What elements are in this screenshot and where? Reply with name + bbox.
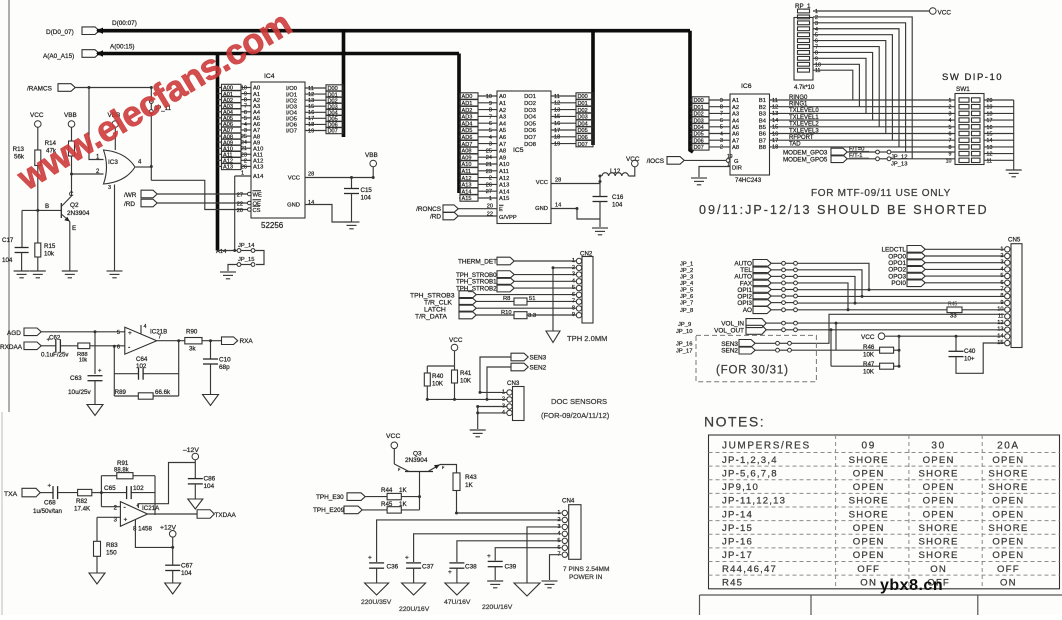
svg-text:AO: AO (743, 307, 752, 314)
svg-text:JP_8: JP_8 (680, 308, 693, 314)
pin A4 IC5 (499, 121, 507, 127)
svg-text:A8: A8 (732, 145, 739, 151)
svg-text:11: 11 (998, 313, 1004, 319)
svg-text:2N3904: 2N3904 (67, 210, 90, 217)
svg-text:JP_7: JP_7 (680, 301, 693, 307)
svg-text:5: 5 (489, 128, 492, 134)
wire CN3 pin2 row (427, 398, 507, 400)
net AO (743, 306, 771, 314)
svg-text:R45: R45 (722, 577, 743, 588)
node D00 bus rip (326, 85, 344, 92)
svg-text:10K: 10K (460, 378, 472, 385)
svg-text:SEN3: SEN3 (530, 355, 547, 362)
node junction (476, 411, 479, 414)
svg-text:JP-11,12,13: JP-11,12,13 (722, 496, 786, 507)
node junction (835, 322, 838, 325)
power VCC CN3 (449, 337, 463, 351)
ground C39 (487, 581, 503, 588)
svg-text:VCC: VCC (449, 337, 463, 344)
pin DO4 (524, 114, 576, 120)
svg-text:OPEN: OPEN (853, 468, 885, 479)
svg-text:+: + (98, 369, 102, 375)
net JP_10 label (676, 329, 692, 335)
svg-text:3: 3 (1000, 260, 1003, 266)
svg-text:26: 26 (241, 164, 247, 170)
wire C64 row (114, 373, 178, 375)
wire RING1 row (789, 106, 955, 108)
node D01 bus rip IC5 (576, 100, 594, 107)
node junction (854, 302, 857, 305)
resistor R88 10k (77, 343, 90, 364)
svg-text:20: 20 (237, 208, 243, 214)
wire CN3 pin3 pin4 (478, 407, 507, 430)
power VCC Q3 (386, 433, 400, 449)
wire AGD row (41, 331, 125, 333)
svg-text:09: 09 (862, 441, 876, 452)
svg-text:13: 13 (987, 145, 993, 151)
pin B8 IC6 (759, 145, 789, 151)
capacitor C63 10u/25v (68, 369, 103, 397)
node AD2 bus rip (459, 106, 497, 113)
svg-text:5: 5 (949, 125, 952, 131)
jumper JP_9 (782, 321, 798, 325)
node A02 bus rip (218, 96, 252, 103)
svg-text:+: + (48, 484, 52, 490)
net FAX (740, 279, 771, 287)
wire IC3 pin3 to ground (114, 185, 116, 272)
svg-text:6: 6 (720, 118, 723, 124)
svg-text:FOR MTF-09/11 USE ONLY: FOR MTF-09/11 USE ONLY (811, 188, 951, 199)
node AD7 bus rip (459, 140, 497, 147)
svg-text:6: 6 (117, 344, 120, 350)
svg-text:C40: C40 (964, 348, 976, 355)
svg-text:10K: 10K (863, 352, 875, 359)
svg-text:1: 1 (949, 98, 952, 104)
svg-text:THERM_DET: THERM_DET (458, 259, 497, 266)
pin WE (237, 191, 262, 199)
svg-text:4: 4 (144, 324, 147, 330)
svg-text:A5: A5 (499, 128, 506, 134)
svg-text:12: 12 (772, 105, 778, 111)
svg-text:14: 14 (997, 333, 1003, 339)
net F/T=0 (849, 146, 869, 152)
svg-text:A12: A12 (499, 176, 509, 182)
svg-text:11: 11 (815, 68, 821, 74)
svg-text:C37: C37 (422, 564, 434, 571)
node junction (861, 295, 864, 298)
wire TPH_E30 (365, 496, 387, 498)
node junction (426, 398, 429, 401)
net RXDAA (0, 342, 41, 351)
op-amp U-IC4 52256 RAM (251, 73, 305, 230)
svg-text:19: 19 (308, 128, 314, 134)
wire SW1 pin18 right (984, 112, 1014, 114)
wire R15 to ground (37, 257, 39, 271)
resistor R40 10K (424, 373, 444, 388)
wire RFPORT row (789, 139, 955, 141)
svg-text:+: + (128, 330, 132, 337)
svg-text:R91: R91 (117, 460, 129, 467)
pin A2 IC5 (499, 108, 506, 114)
pin A6 IC5 (499, 135, 506, 141)
ground SW1 (1006, 170, 1022, 177)
svg-text:220U/16V: 220U/16V (482, 604, 513, 611)
wire R14 to collector (71, 156, 73, 196)
pin A14 IC5 (499, 189, 510, 195)
wire TXA to C68 (40, 492, 52, 494)
wire R44 to base (401, 496, 419, 498)
wire OPI3 row (797, 302, 1004, 304)
svg-text:17.4K: 17.4K (74, 506, 91, 513)
svg-text:JP-5,6,7,8: JP-5,6,7,8 (722, 468, 778, 479)
net T/R_DATA (415, 311, 476, 320)
resistor R8 51 (503, 296, 535, 305)
node A03 bus rip (218, 103, 252, 110)
svg-text:SEN2: SEN2 (721, 348, 738, 355)
power VCC CN5 (861, 333, 885, 341)
resistor R15 10k (35, 243, 56, 258)
resistor R13 56k (13, 146, 41, 166)
wire node up (100, 476, 102, 493)
pin label A5 (253, 116, 260, 122)
wire VOL_OUT hex (766, 329, 781, 331)
svg-text:14: 14 (555, 203, 561, 209)
wire base node (22, 209, 61, 211)
wire Q3 base (419, 472, 421, 510)
wire C36 gnd (376, 568, 378, 583)
node D06 bus rip IC5 (576, 134, 594, 141)
svg-text:A4: A4 (499, 121, 507, 127)
node D00 bus rip IC5 (576, 93, 594, 100)
svg-text:7: 7 (1000, 287, 1003, 293)
svg-text:JP_16: JP_16 (676, 342, 692, 348)
svg-text:TPH_E30: TPH_E30 (316, 494, 344, 501)
wire R91 rail (101, 475, 155, 477)
wire +12V down (172, 537, 174, 565)
node A04 bus rip (218, 109, 252, 116)
svg-text:12: 12 (997, 320, 1003, 326)
svg-text:2: 2 (489, 176, 492, 182)
wire SW1 pin13 right (984, 146, 1014, 148)
net /RONCS (416, 206, 441, 221)
capacitor C67 104 (165, 563, 193, 578)
text FOR MTF-09/11 USE ONLY (811, 188, 951, 199)
svg-text:09/11:JP-12/13 SHOULD BE SHORT: 09/11:JP-12/13 SHOULD BE SHORTED (699, 203, 989, 217)
node D04 bus rip IC6 (690, 124, 730, 131)
svg-text:18: 18 (772, 145, 778, 151)
node D01 bus rip (326, 91, 344, 98)
text NOTES: (704, 414, 765, 430)
net SEN3 (721, 340, 755, 348)
svg-text:17: 17 (772, 138, 778, 144)
node B (45, 203, 49, 210)
wire WR to WE (157, 193, 247, 195)
svg-text:RXA: RXA (240, 338, 254, 345)
svg-text:SHORE: SHORE (849, 496, 889, 507)
svg-text:1: 1 (727, 162, 730, 168)
pin B3 IC6 (759, 111, 789, 117)
node D07 bus rip IC6 (690, 144, 730, 151)
node A01 bus rip (218, 90, 252, 97)
svg-text:JP_10: JP_10 (676, 329, 692, 335)
svg-text:R89: R89 (115, 389, 127, 396)
wire R45 to base (401, 509, 419, 511)
pin A14 (235, 171, 264, 181)
net POI0 (891, 279, 925, 287)
node junction (177, 339, 180, 342)
node junction (150, 86, 153, 89)
resistor R83 150 (94, 541, 119, 556)
ground C38 (445, 583, 469, 595)
pin A0 IC5 (499, 94, 506, 100)
svg-text:JP9,10: JP9,10 (722, 482, 759, 493)
ground JP15 (220, 272, 236, 279)
svg-text:A7: A7 (499, 142, 506, 148)
resistor R10 3.3 (501, 310, 536, 319)
svg-text:C68: C68 (44, 500, 56, 507)
power VCC RP (930, 8, 952, 17)
svg-text:4: 4 (949, 118, 952, 124)
wire RP pin2 route (813, 17, 912, 159)
svg-text:OPEN: OPEN (923, 496, 955, 507)
svg-text:G/VPP: G/VPP (499, 215, 517, 221)
wire C15 branch (351, 178, 353, 189)
svg-text:C63: C63 (70, 375, 82, 382)
node A011 bus rip (218, 151, 252, 158)
wire OPO3 (925, 275, 1004, 277)
svg-text:18: 18 (554, 135, 560, 141)
svg-text:/IOCS: /IOCS (647, 158, 664, 165)
svg-text:A5: A5 (732, 125, 739, 131)
pin label A7 (253, 128, 260, 134)
wire VCC down (898, 336, 900, 366)
svg-text:R83: R83 (106, 542, 118, 549)
svg-text:3: 3 (720, 138, 723, 144)
svg-text:GND: GND (287, 203, 300, 209)
svg-text:102: 102 (133, 485, 144, 492)
net LEDCTL (881, 246, 925, 254)
net OPO2 (888, 266, 925, 274)
pin G IC6 (726, 154, 739, 165)
svg-text:A13: A13 (223, 165, 233, 171)
svg-text:SHORE: SHORE (919, 523, 959, 534)
pin VCC 28 IC5 (536, 178, 561, 187)
wire bus to JP14 (218, 250, 238, 252)
svg-text:A0: A0 (499, 94, 506, 100)
wire R90 to RXA (202, 340, 222, 342)
svg-text:A1: A1 (499, 101, 506, 107)
svg-text:+: + (47, 338, 51, 344)
node junction (171, 546, 174, 549)
svg-text:R90: R90 (186, 329, 198, 336)
wire VCC28 IC5 (551, 183, 600, 185)
svg-text:OFF: OFF (857, 564, 880, 575)
svg-text:OPEN: OPEN (992, 496, 1024, 507)
svg-text:IC5: IC5 (513, 147, 524, 154)
svg-text:JP-14: JP-14 (722, 509, 753, 520)
svg-text:3: 3 (108, 185, 111, 191)
wire out rail (154, 476, 156, 515)
node junction (233, 249, 236, 252)
wire SW1 pin16 right (984, 126, 1014, 128)
pin G/VPP 22 (487, 212, 517, 222)
resistor R90 3k (185, 329, 202, 353)
resistor R89 66.6k (115, 389, 171, 399)
svg-text:OFF: OFF (997, 564, 1020, 575)
svg-text:104: 104 (2, 257, 13, 264)
pin A9 IC5 (499, 155, 506, 161)
op-amp IC21B (117, 324, 167, 354)
wire D bus drop to IC4 (342, 31, 346, 137)
capacitor C17 104 (2, 237, 29, 264)
wire AUTO to jumper (771, 275, 781, 277)
node junction (94, 330, 97, 333)
power -12V (183, 447, 199, 460)
wire SW1 common (1013, 100, 1015, 170)
wire -12V branch (138, 463, 195, 509)
svg-text:10k: 10k (44, 251, 55, 258)
pin A10 IC5 (499, 162, 509, 168)
svg-text:A14: A14 (499, 189, 510, 195)
net OPO3 (888, 272, 925, 280)
node junction (599, 180, 602, 183)
wire VCC to pin14 (885, 335, 1005, 337)
wire T/R_DATA (476, 314, 576, 316)
net TPH_E209 (313, 506, 362, 514)
svg-text:C36: C36 (387, 564, 399, 571)
svg-text:JP_13: JP_13 (891, 161, 907, 167)
wire C65 row (101, 492, 155, 494)
wire L12 to VCC (628, 167, 634, 176)
wire SEN2 hex (755, 349, 775, 351)
pin label A6 (253, 122, 260, 128)
pin I/O4 (286, 110, 326, 116)
svg-text:C64: C64 (136, 356, 148, 363)
wire VBB stub (372, 167, 374, 178)
svg-text:4: 4 (720, 131, 723, 137)
ground Q2 emitter (62, 271, 78, 278)
net TXDAA (197, 510, 236, 519)
node A08 bus rip (218, 133, 252, 140)
net TEL (740, 266, 771, 274)
wire JP_3 route (797, 276, 855, 303)
svg-text:A7: A7 (732, 138, 739, 144)
svg-text:7: 7 (158, 335, 161, 341)
resistor R45 1K (381, 501, 407, 513)
svg-text:14: 14 (308, 200, 314, 206)
net THERM_DET (458, 257, 514, 265)
node A06 bus rip (218, 121, 252, 128)
wire R41 down (454, 383, 456, 399)
pin OE (237, 200, 261, 208)
text (FOR-09/20A/11/12) (541, 411, 610, 420)
jumper JP_1 (782, 261, 798, 265)
net RFPORT (789, 135, 814, 141)
pin label A3 (253, 104, 260, 110)
svg-text:OPEN: OPEN (923, 509, 955, 520)
wire JP_1 route (797, 263, 869, 289)
svg-text:+: + (405, 555, 409, 562)
wire SW1 pin19 right (984, 106, 1014, 108)
table row JP-15 (722, 523, 1028, 534)
svg-text:C65: C65 (104, 485, 116, 492)
svg-text:DOC SENSORS: DOC SENSORS (551, 397, 607, 406)
wire GPO3 to SW (891, 151, 955, 153)
wire VOL_IN pullup (835, 323, 837, 350)
svg-text:10+: 10+ (964, 356, 975, 363)
svg-text:/WR: /WR (124, 192, 137, 199)
wire pin3 down (96, 517, 98, 541)
pin label A0 (253, 86, 260, 92)
node E (72, 225, 76, 232)
net OPO0 (888, 252, 925, 260)
wire GPO3 row (847, 151, 876, 153)
net JP_6 label (680, 294, 693, 300)
pin B2 IC6 (759, 105, 789, 111)
pin A7 IC5 (499, 142, 506, 148)
table row R44,46,47 (722, 564, 1020, 575)
svg-text:7: 7 (949, 138, 952, 144)
wire A bus drop to IC5 (457, 54, 461, 194)
svg-text:IC6: IC6 (741, 83, 752, 90)
page edge line (2, 0, 9, 615)
power +12V (160, 525, 177, 538)
wire C86 to ground (194, 484, 196, 499)
capacitor C16 104 (593, 194, 624, 209)
wire R13-R15 node (37, 210, 39, 243)
svg-text:IC4: IC4 (264, 73, 275, 80)
net TPH marker triangle (546, 331, 560, 343)
wire AUTO to jumper (771, 262, 781, 264)
node D04 bus rip IC5 (576, 120, 594, 127)
wire CN3 pin1 row (480, 391, 507, 393)
jumper JP_4 (782, 281, 798, 285)
wire R89 row (114, 395, 178, 397)
pin A6 IC6 (732, 132, 739, 138)
svg-text:1: 1 (1000, 246, 1003, 252)
jumper JP_16 (776, 341, 792, 345)
wire AO to jumper (771, 309, 781, 311)
wire fb right vert (178, 341, 180, 396)
wire CN4 pin3 row (527, 527, 561, 583)
wire GND14 IC5 (551, 209, 600, 220)
svg-text:18: 18 (987, 111, 993, 117)
svg-text:5: 5 (117, 330, 120, 336)
node AD5 bus rip (459, 127, 497, 134)
svg-text:C86: C86 (204, 476, 216, 483)
svg-text:A13: A13 (499, 183, 509, 189)
wire TPH_STROB3 (476, 294, 576, 296)
svg-text:8: 8 (1000, 293, 1003, 299)
table row JP-1,2,3,4 (722, 455, 1024, 466)
svg-text:7 PINS 2.54MM: 7 PINS 2.54MM (563, 566, 610, 573)
node junction (113, 345, 116, 348)
wire LEDCTL (925, 248, 1004, 250)
ground C16 (592, 228, 608, 235)
node junction (88, 86, 91, 89)
svg-text:8: 8 (489, 108, 492, 114)
svg-text:A14: A14 (253, 174, 264, 180)
connector CN5 (997, 237, 1022, 348)
ground CN4 pin7 (542, 581, 558, 588)
wire CN4 pin6 row (495, 548, 561, 561)
pin label A8 (253, 134, 260, 140)
wire OPI2 row (797, 295, 1004, 297)
wire C62 to R88 (61, 345, 78, 347)
wire THERM_DET (514, 260, 576, 262)
capacitor C36 220U/35V (368, 555, 399, 571)
node D03 bus rip IC5 (576, 113, 594, 120)
